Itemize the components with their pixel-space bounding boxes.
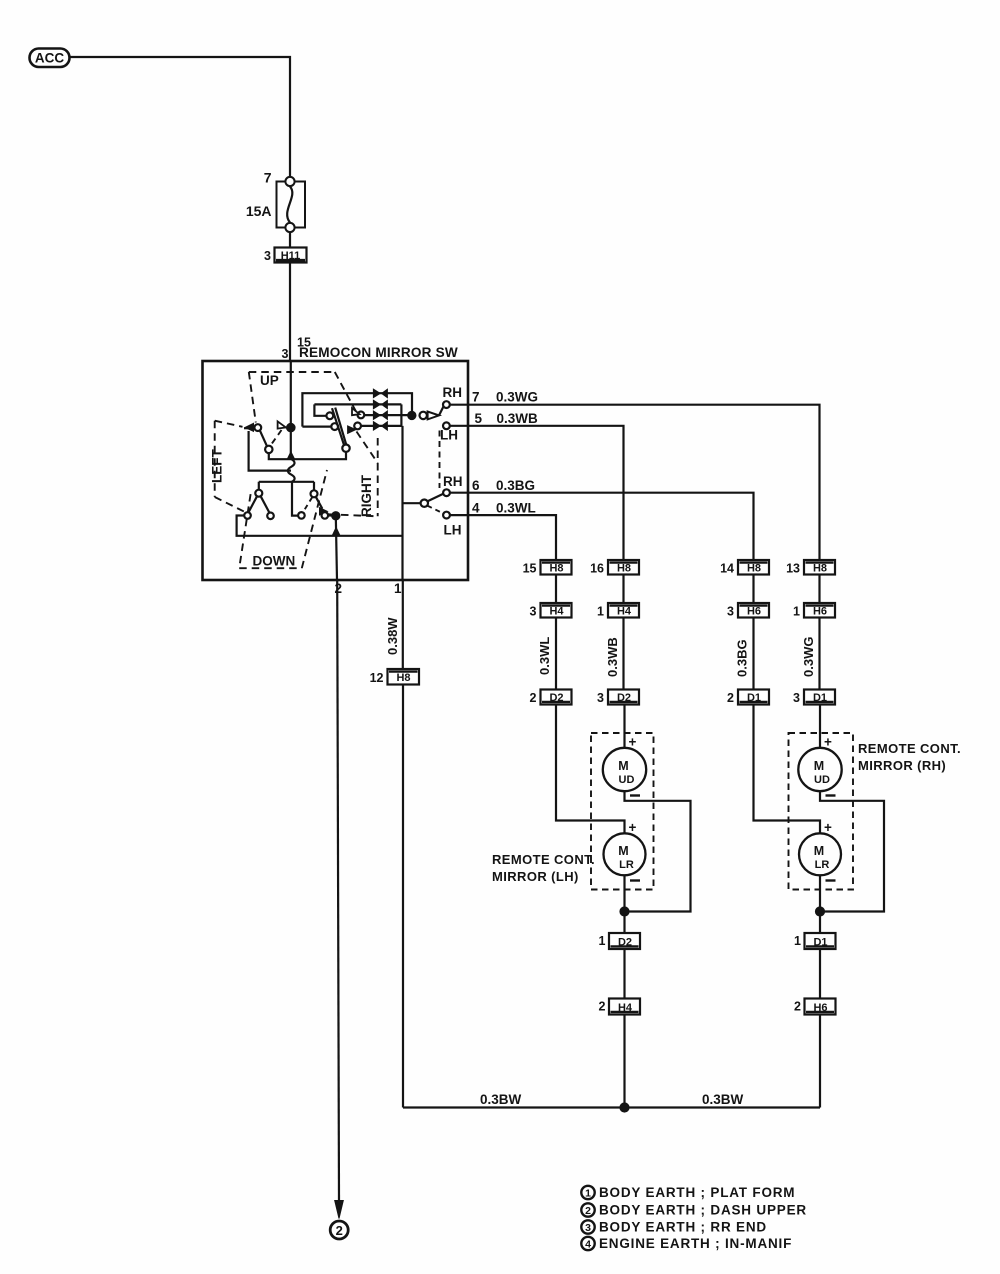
svg-text:3: 3 <box>282 347 289 361</box>
svg-text:+: + <box>629 735 637 750</box>
svg-text:3: 3 <box>264 249 271 263</box>
svg-text:2: 2 <box>530 691 537 705</box>
svg-text:0.38W: 0.38W <box>385 617 400 655</box>
svg-text:0.3WB: 0.3WB <box>605 637 620 677</box>
svg-text:7: 7 <box>264 170 272 186</box>
svg-text:3: 3 <box>585 1222 591 1234</box>
svg-text:H8: H8 <box>396 672 410 684</box>
svg-text:0.3BW: 0.3BW <box>480 1092 522 1107</box>
svg-text:+: + <box>824 735 832 750</box>
svg-text:UD: UD <box>619 774 635 786</box>
svg-text:+: + <box>824 820 832 835</box>
svg-text:M: M <box>618 844 628 858</box>
svg-text:0.3WG: 0.3WG <box>496 390 538 405</box>
svg-text:RH: RH <box>443 474 463 489</box>
svg-text:4: 4 <box>585 1239 591 1251</box>
svg-text:D1: D1 <box>813 692 827 704</box>
svg-text:2: 2 <box>335 581 343 596</box>
svg-text:H4: H4 <box>618 1002 633 1014</box>
svg-text:LH: LH <box>440 428 458 443</box>
svg-text:2: 2 <box>585 1205 591 1217</box>
svg-text:3: 3 <box>530 605 537 619</box>
svg-text:ENGINE EARTH ; IN-MANIF: ENGINE EARTH ; IN-MANIF <box>599 1236 792 1251</box>
svg-text:RIGHT: RIGHT <box>359 474 374 517</box>
svg-text:H8: H8 <box>813 563 827 575</box>
svg-text:LH: LH <box>444 523 462 538</box>
svg-text:D2: D2 <box>549 692 563 704</box>
svg-text:16: 16 <box>590 562 604 576</box>
svg-text:4: 4 <box>472 501 480 516</box>
svg-text:D2: D2 <box>617 692 631 704</box>
svg-text:M: M <box>814 759 824 773</box>
svg-text:REMOCON MIRROR SW: REMOCON MIRROR SW <box>299 345 458 360</box>
svg-text:0.3WB: 0.3WB <box>497 411 539 426</box>
svg-text:1: 1 <box>394 581 402 596</box>
svg-text:2: 2 <box>336 1223 343 1238</box>
svg-text:BODY EARTH ; DASH UPPER: BODY EARTH ; DASH UPPER <box>599 1203 807 1218</box>
svg-text:ACC: ACC <box>35 51 64 66</box>
svg-text:14: 14 <box>720 562 734 576</box>
svg-text:0.3WG: 0.3WG <box>801 637 816 677</box>
svg-text:5: 5 <box>475 411 483 426</box>
svg-text:RH: RH <box>443 385 463 400</box>
svg-text:0.3WL: 0.3WL <box>496 501 536 516</box>
svg-text:3: 3 <box>793 691 800 705</box>
svg-text:DOWN: DOWN <box>253 554 296 569</box>
svg-text:H6: H6 <box>747 606 761 618</box>
svg-text:1: 1 <box>597 605 604 619</box>
svg-text:REMOTE CONT.: REMOTE CONT. <box>858 741 961 756</box>
svg-text:3: 3 <box>597 691 604 705</box>
svg-text:M: M <box>618 759 628 773</box>
svg-text:2: 2 <box>794 1000 801 1014</box>
svg-text:0.3BG: 0.3BG <box>496 478 535 493</box>
svg-text:M: M <box>814 844 824 858</box>
svg-text:LEFT: LEFT <box>210 449 225 483</box>
svg-text:3: 3 <box>727 605 734 619</box>
svg-text:6: 6 <box>472 478 480 493</box>
svg-text:REMOTE CONT.: REMOTE CONT. <box>492 852 595 867</box>
svg-text:H6: H6 <box>813 606 827 618</box>
svg-text:D2: D2 <box>618 937 632 949</box>
svg-text:0.3WL: 0.3WL <box>537 637 552 675</box>
svg-text:H4: H4 <box>549 606 564 618</box>
svg-text:H8: H8 <box>747 563 761 575</box>
svg-text:LR: LR <box>619 859 634 871</box>
svg-text:1: 1 <box>793 605 800 619</box>
svg-text:MIRROR (LH): MIRROR (LH) <box>492 869 579 884</box>
svg-text:H11: H11 <box>281 250 301 262</box>
svg-text:7: 7 <box>472 390 480 405</box>
svg-text:15: 15 <box>523 562 537 576</box>
svg-text:12: 12 <box>370 671 384 685</box>
svg-text:BODY EARTH ; RR END: BODY EARTH ; RR END <box>599 1220 767 1235</box>
svg-text:D1: D1 <box>813 937 827 949</box>
svg-text:UP: UP <box>260 373 279 388</box>
svg-text:0.3BG: 0.3BG <box>735 639 750 677</box>
svg-text:+: + <box>629 820 637 835</box>
svg-text:1: 1 <box>794 934 801 948</box>
svg-text:LR: LR <box>815 859 830 871</box>
svg-text:H8: H8 <box>617 563 631 575</box>
svg-text:2: 2 <box>599 1000 606 1014</box>
svg-text:BODY EARTH ; PLAT FORM: BODY EARTH ; PLAT FORM <box>599 1185 795 1200</box>
svg-text:1: 1 <box>585 1188 591 1200</box>
svg-text:H8: H8 <box>549 563 563 575</box>
svg-text:UD: UD <box>814 774 830 786</box>
svg-text:MIRROR (RH): MIRROR (RH) <box>858 758 946 773</box>
svg-text:D1: D1 <box>747 692 761 704</box>
svg-text:2: 2 <box>727 691 734 705</box>
svg-text:15A: 15A <box>246 203 272 219</box>
svg-text:H6: H6 <box>813 1002 827 1014</box>
svg-text:1: 1 <box>599 934 606 948</box>
svg-text:H4: H4 <box>617 606 632 618</box>
svg-text:13: 13 <box>786 562 800 576</box>
svg-text:0.3BW: 0.3BW <box>702 1092 744 1107</box>
